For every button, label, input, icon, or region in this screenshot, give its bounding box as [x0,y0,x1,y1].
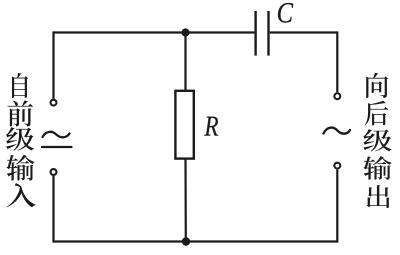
terminal: upper output (open circle) [334,93,340,99]
wire: capacitor right plate to top-right corner [270,31,338,33]
resistor value label R [204,117,218,136]
wire: node A to capacitor left plate [186,31,255,33]
wire: bottom rail, left corner to node B [54,240,187,242]
terminal: lower input (open circle) [51,169,57,175]
terminal: upper input (open circle) [51,100,57,106]
wire: resistor bottom lead down to node B [184,160,187,242]
label: output caption 向后级输出 (to next stage output), vertical column [363,73,391,208]
wire: right branch vertical, lower output terminal down to bottom rail [336,170,338,243]
wire: node B to bottom-right corner [186,240,337,242]
label: input caption 自前级输入 (from previous stage input), vertical column [6,73,36,207]
wire: left branch vertical, top corner down to upper input terminal [52,31,54,98]
capacitor value label C [278,3,293,23]
AC source symbol at input (tilde over bar) [42,132,72,147]
terminal: lower output (open circle) [334,163,340,169]
node A: junction dot joining top rail and resistor [181,28,189,36]
wire: node A down to resistor top lead [184,33,186,91]
capacitor C: left plate [254,11,256,56]
AC signal symbol at output (tilde) [324,128,351,134]
capacitor C: right plate [267,11,269,56]
wire: top rail, left corner to node A [54,31,186,33]
wire: right branch vertical, top corner down to upper output terminal [336,31,338,92]
node B: junction dot joining bottom rail and resistor [182,237,190,245]
wire: left branch vertical, lower input terminal down to bottom rail [52,176,54,243]
resistor R: rectangle body [175,91,193,159]
